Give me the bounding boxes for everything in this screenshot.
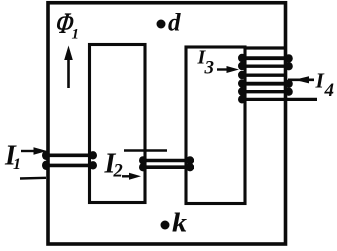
- flux arrow (up): [67, 57, 70, 88]
- svg-text:1: 1: [13, 156, 21, 173]
- svg-text:1: 1: [72, 27, 80, 43]
- node k dot: [161, 221, 170, 230]
- svg-text:d: d: [168, 10, 181, 37]
- outer core rectangle: [48, 3, 286, 244]
- I2 arrow lead: [122, 175, 131, 177]
- winding W1 line 1: [45, 154, 97, 158]
- winding W2 line 1: [140, 159, 194, 163]
- svg-text:3: 3: [204, 58, 215, 79]
- svg-text:4: 4: [324, 80, 335, 101]
- I4 arrow lead: [288, 79, 314, 82]
- winding W4 line G with outgoing lead: [244, 98, 317, 101]
- winding W3 line B: [241, 56, 290, 60]
- node d dot: [157, 20, 166, 29]
- left window: [90, 45, 146, 203]
- I1 arrow lead: [21, 150, 36, 152]
- winding W2 line 2: [140, 165, 194, 169]
- winding W3 line D: [244, 73, 287, 76]
- winding W4 line E: [241, 82, 290, 86]
- svg-text:I: I: [315, 68, 325, 92]
- winding W1 line 2: [45, 164, 97, 168]
- winding W3 line A (window top extension): [245, 46, 286, 49]
- I3 arrow lead: [217, 68, 229, 70]
- winding W3 line C: [242, 64, 288, 67]
- I2 upper lead: [124, 149, 167, 152]
- I1 lower lead: [20, 177, 46, 180]
- right window: [186, 47, 245, 204]
- svg-text:k: k: [172, 208, 188, 238]
- svg-text:2: 2: [113, 162, 123, 182]
- winding W4 line F: [242, 90, 288, 93]
